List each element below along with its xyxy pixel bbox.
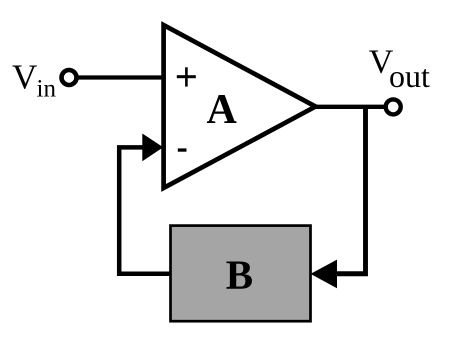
wire output down to B input bbox=[337, 107, 366, 274]
svg-text:B: B bbox=[226, 252, 253, 298]
svg-text:in: in bbox=[37, 75, 57, 102]
arrowhead into - input bbox=[142, 134, 163, 162]
wire B output to op-amp - input bbox=[119, 147, 169, 273]
wire op-amp output bbox=[315, 105, 386, 109]
minus sign (- input) bbox=[178, 148, 187, 151]
plus sign (+ input) bbox=[177, 67, 196, 86]
svg-text:V: V bbox=[12, 58, 37, 97]
node Vout label bbox=[369, 44, 430, 95]
feedback block B bbox=[171, 226, 311, 322]
svg-text:A: A bbox=[207, 87, 238, 133]
op-amp A triangle bbox=[164, 25, 316, 188]
node Vin label bbox=[12, 58, 56, 103]
terminal Vout bbox=[386, 99, 401, 114]
wire Vin to op-amp + input bbox=[77, 75, 168, 79]
terminal Vin bbox=[62, 70, 77, 85]
svg-text:out: out bbox=[389, 58, 430, 94]
arrowhead into B bbox=[311, 260, 338, 289]
